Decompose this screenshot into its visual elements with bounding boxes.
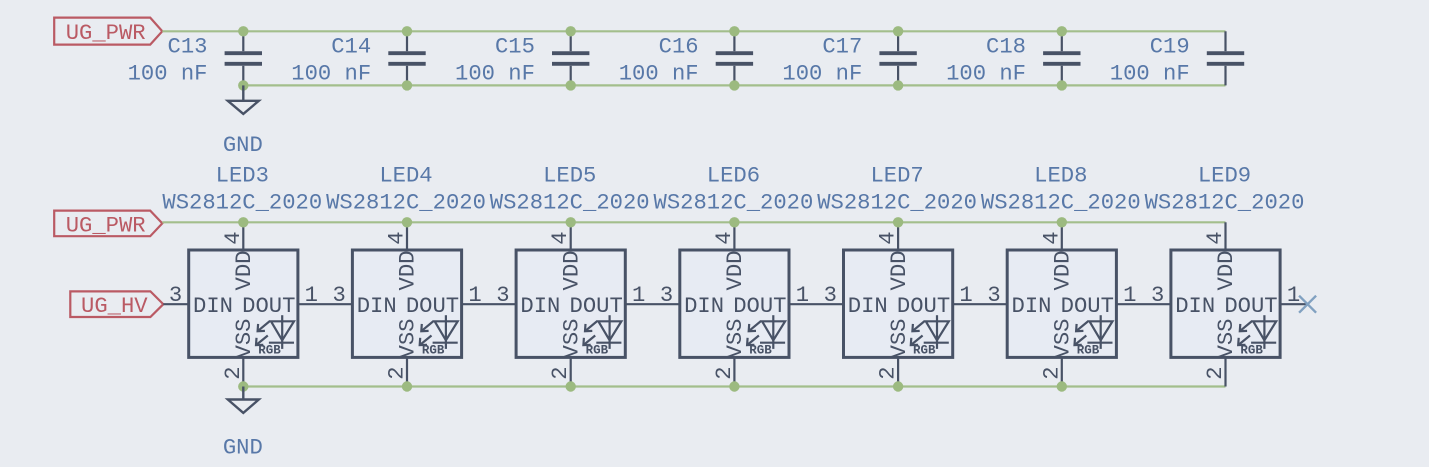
wire UG_PWR top bus (162, 30, 1225, 32)
svg-text:100 nF: 100 nF (1110, 61, 1190, 86)
wire GND LED bus (243, 385, 1225, 387)
svg-text:VDD: VDD (232, 251, 257, 291)
svg-text:2: 2 (1039, 366, 1064, 379)
svg-text:LED8: LED8 (1034, 164, 1087, 189)
svg-text:4: 4 (712, 231, 737, 244)
svg-text:VDD: VDD (1214, 251, 1239, 291)
svg-text:LED3: LED3 (216, 164, 269, 189)
svg-text:100 nF: 100 nF (619, 61, 699, 86)
junction (VDD bus, LED5) (566, 217, 576, 227)
svg-text:VSS: VSS (1051, 319, 1076, 359)
svg-text:UG_HV: UG_HV (81, 294, 148, 319)
junction (GND bus, LED8) (1057, 381, 1067, 391)
pin 1 DOUT (LED6) (789, 303, 844, 305)
label UG_HV (70, 291, 163, 319)
junction (bottom wire, C14) (402, 80, 412, 90)
svg-text:GND: GND (223, 436, 263, 461)
svg-text:4: 4 (1039, 231, 1064, 244)
svg-text:WS2812C_2020: WS2812C_2020 (490, 190, 650, 215)
pin 2 VSS (LED5) (570, 357, 572, 386)
svg-text:VSS: VSS (723, 319, 748, 359)
power label UG_PWR (LED row) (54, 211, 162, 239)
svg-text:DOUT: DOUT (406, 294, 459, 319)
svg-text:100 nF: 100 nF (782, 61, 862, 86)
svg-text:1: 1 (468, 283, 481, 308)
svg-text:1: 1 (796, 283, 809, 308)
svg-text:VDD: VDD (396, 251, 421, 291)
svg-text:DIN: DIN (520, 294, 560, 319)
LED symbol inside LED5 (583, 315, 621, 349)
svg-text:DIN: DIN (357, 294, 397, 319)
svg-text:RGB: RGB (1077, 344, 1100, 358)
svg-text:VSS: VSS (559, 319, 584, 359)
capacitor C14 (388, 31, 425, 85)
pin 4 VDD (LED6) (733, 222, 735, 250)
LED LED4 body (352, 250, 461, 357)
svg-text:VSS: VSS (232, 319, 257, 359)
svg-text:VDD: VDD (559, 251, 584, 291)
pin 1 DOUT (LED7) (953, 303, 1008, 305)
junction (bottom wire, C13) (238, 80, 248, 90)
svg-text:DOUT: DOUT (1061, 294, 1114, 319)
svg-text:VSS: VSS (396, 319, 421, 359)
capacitor C15 (552, 31, 589, 85)
LED LED7 body (844, 250, 953, 357)
junction (VDD bus, LED4) (402, 217, 412, 227)
svg-text:3: 3 (1151, 283, 1164, 308)
power label UG_PWR (top) (54, 18, 162, 47)
LED symbol inside LED8 (1075, 315, 1113, 349)
svg-text:1: 1 (632, 283, 645, 308)
junction (VDD bus, LED7) (893, 217, 903, 227)
svg-text:DOUT: DOUT (242, 294, 295, 319)
ground symbol (cap row) (228, 85, 259, 114)
svg-text:100 nF: 100 nF (455, 61, 535, 86)
svg-text:DOUT: DOUT (733, 294, 786, 319)
ground symbol (LED row) (228, 387, 259, 413)
svg-text:C13: C13 (168, 34, 208, 59)
svg-text:3: 3 (496, 283, 509, 308)
pin 2 VSS (LED6) (733, 357, 735, 386)
svg-text:DOUT: DOUT (897, 294, 950, 319)
LED symbol inside LED9 (1238, 315, 1276, 349)
pin 2 VSS (LED4) (406, 357, 408, 386)
svg-text:3: 3 (333, 283, 346, 308)
capacitor C19 (1207, 31, 1244, 85)
svg-text:DIN: DIN (848, 294, 888, 319)
junction (bottom wire, C15) (566, 80, 576, 90)
svg-text:VDD: VDD (1051, 251, 1076, 291)
pin 2 VSS (LED3) (242, 357, 244, 386)
LED LED8 body (1007, 250, 1116, 357)
LED symbol inside LED4 (420, 315, 458, 349)
junction (VDD bus, LED6) (729, 217, 739, 227)
junction (top wire, C13) (238, 26, 248, 36)
pin 2 VSS (LED7) (897, 357, 899, 386)
svg-text:2: 2 (548, 366, 573, 379)
pin 4 VDD (LED8) (1061, 222, 1063, 250)
svg-text:RGB: RGB (586, 344, 609, 358)
svg-text:3: 3 (660, 283, 673, 308)
wire UG_PWR LED bus (162, 221, 1225, 223)
LED LED6 body (680, 250, 789, 357)
svg-text:VSS: VSS (1214, 319, 1239, 359)
svg-text:1: 1 (1123, 283, 1136, 308)
svg-text:2: 2 (221, 366, 246, 379)
junction (bottom wire, C16) (729, 80, 739, 90)
svg-text:DIN: DIN (193, 294, 233, 319)
svg-text:1: 1 (959, 283, 972, 308)
svg-text:2: 2 (385, 366, 410, 379)
pin 4 VDD (LED3) (242, 222, 244, 250)
svg-text:DIN: DIN (1012, 294, 1052, 319)
junction (VDD bus, LED8) (1057, 217, 1067, 227)
pin 1 DOUT (LED4) (462, 303, 516, 305)
svg-text:VSS: VSS (887, 319, 912, 359)
svg-text:VDD: VDD (887, 251, 912, 291)
junction (GND bus, LED4) (402, 381, 412, 391)
pin 1 DOUT (LED5) (625, 303, 680, 305)
svg-text:1: 1 (305, 283, 318, 308)
svg-text:DOUT: DOUT (1224, 294, 1277, 319)
LED LED3 body (189, 250, 298, 357)
svg-text:3: 3 (824, 283, 837, 308)
svg-text:100 nF: 100 nF (291, 61, 371, 86)
svg-text:4: 4 (876, 231, 901, 244)
svg-text:C15: C15 (495, 34, 535, 59)
pin 3 DIN (LED3) (163, 303, 188, 305)
svg-text:4: 4 (548, 231, 573, 244)
svg-text:2: 2 (712, 366, 737, 379)
LED LED9 body (1171, 250, 1280, 357)
svg-text:WS2812C_2020: WS2812C_2020 (981, 190, 1141, 215)
capacitor C17 (879, 31, 916, 85)
junction (top wire, C14) (402, 26, 412, 36)
svg-text:WS2812C_2020: WS2812C_2020 (1145, 190, 1305, 215)
svg-text:WS2812C_2020: WS2812C_2020 (817, 190, 977, 215)
pin 4 VDD (LED4) (406, 222, 408, 250)
LED symbol inside LED6 (747, 315, 785, 349)
capacitor C13 (225, 31, 262, 85)
svg-text:GND: GND (223, 133, 263, 158)
svg-text:LED6: LED6 (707, 164, 760, 189)
junction (GND bus, LED6) (729, 381, 739, 391)
svg-text:RGB: RGB (913, 344, 936, 358)
svg-text:RGB: RGB (749, 344, 772, 358)
svg-text:UG_PWR: UG_PWR (66, 21, 146, 46)
svg-text:3: 3 (987, 283, 1000, 308)
svg-text:WS2812C_2020: WS2812C_2020 (162, 190, 322, 215)
capacitor C18 (1043, 31, 1080, 85)
wire GND bottom bus (cap row) (243, 84, 1225, 86)
pin 1 DOUT (LED8) (1116, 303, 1171, 305)
svg-text:LED9: LED9 (1198, 164, 1251, 189)
pin 1 DOUT (LED3) (298, 303, 353, 305)
svg-text:100 nF: 100 nF (128, 61, 208, 86)
LED LED5 body (516, 250, 625, 357)
svg-text:C18: C18 (986, 34, 1026, 59)
LED symbol inside LED7 (911, 315, 949, 349)
svg-text:WS2812C_2020: WS2812C_2020 (654, 190, 814, 215)
junction (GND bus, LED7) (893, 381, 903, 391)
pin 4 VDD (LED9) (1224, 222, 1226, 250)
pin 1 DOUT (LED9) (1280, 303, 1308, 305)
junction (top wire, C18) (1057, 26, 1067, 36)
svg-text:100 nF: 100 nF (946, 61, 1026, 86)
junction (bottom wire, C17) (893, 80, 903, 90)
svg-text:RGB: RGB (1240, 344, 1263, 358)
svg-text:C19: C19 (1150, 34, 1190, 59)
LED symbol inside LED3 (256, 315, 294, 349)
junction (bottom wire, C18) (1057, 80, 1067, 90)
no-connect X (LED9 DOUT) (1299, 296, 1316, 313)
svg-text:LED7: LED7 (870, 164, 923, 189)
junction (top wire, C16) (729, 26, 739, 36)
svg-text:LED5: LED5 (543, 164, 596, 189)
svg-text:1: 1 (1287, 283, 1300, 308)
svg-text:C16: C16 (659, 34, 699, 59)
junction (VDD bus, LED3) (238, 217, 248, 227)
svg-text:WS2812C_2020: WS2812C_2020 (326, 190, 486, 215)
junction (GND bus, LED5) (566, 381, 576, 391)
svg-text:VDD: VDD (723, 251, 748, 291)
svg-text:2: 2 (1203, 366, 1228, 379)
svg-text:C17: C17 (822, 34, 862, 59)
pin 4 VDD (LED7) (897, 222, 899, 250)
svg-text:4: 4 (385, 231, 410, 244)
svg-text:LED4: LED4 (379, 164, 432, 189)
junction (top wire, C17) (893, 26, 903, 36)
svg-text:DIN: DIN (684, 294, 724, 319)
pin 4 VDD (LED5) (570, 222, 572, 250)
svg-text:RGB: RGB (422, 344, 445, 358)
junction (GND bus, LED3) (238, 381, 248, 391)
capacitor C16 (716, 31, 753, 85)
junction (top wire, C15) (566, 26, 576, 36)
svg-text:DOUT: DOUT (570, 294, 623, 319)
pin 2 VSS (LED8) (1061, 357, 1063, 386)
svg-text:3: 3 (169, 283, 182, 308)
svg-text:2: 2 (876, 366, 901, 379)
pin 2 VSS (LED9) (1224, 357, 1226, 386)
svg-text:4: 4 (221, 231, 246, 244)
svg-text:4: 4 (1203, 231, 1228, 244)
svg-text:C14: C14 (331, 34, 371, 59)
svg-text:UG_PWR: UG_PWR (66, 213, 146, 238)
svg-text:RGB: RGB (258, 344, 281, 358)
svg-text:DIN: DIN (1175, 294, 1215, 319)
